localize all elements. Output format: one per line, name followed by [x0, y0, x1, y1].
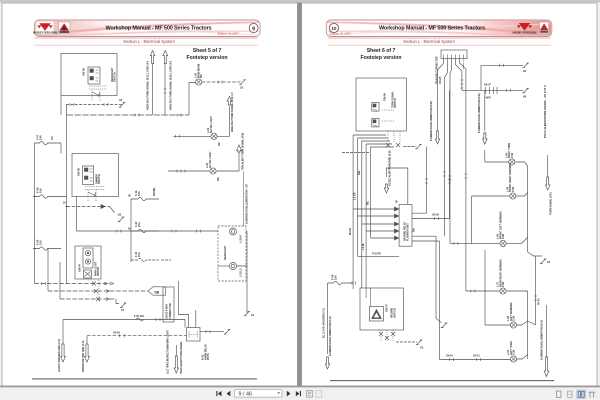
SW-08 labels [77, 168, 102, 184]
LEFT SCHEMATIC [33, 48, 255, 374]
svg-text:1.5 GR: 1.5 GR [355, 192, 357, 200]
RIGHT SCHEMATIC [323, 48, 553, 377]
contact cluster below SW-06 [388, 131, 400, 142]
wire V12 into arrows [63, 320, 87, 345]
relay tap 5 [370, 237, 399, 239]
contact arrow on H3 [101, 205, 105, 209]
svg-text:Workshop Manual - MF 500 Serie: Workshop Manual - MF 500 Series Tractors [105, 26, 211, 32]
top strip [0, 0, 600, 3]
svg-text:21W: 21W [511, 152, 514, 158]
svg-text:LH TRL LIGHT: LH TRL LIGHT [209, 151, 212, 168]
single page view icon [557, 391, 561, 397]
sheet title right [360, 48, 401, 61]
wire V10 [164, 64, 166, 116]
svg-text:SW-06: SW-06 [382, 93, 386, 101]
wire from L-04 up arrow U3 [217, 106, 229, 136]
svg-text:L-02 HI: L-02 HI [241, 235, 243, 243]
continuous view icon [568, 391, 572, 397]
down arrow D2 [85, 344, 90, 362]
wire W1 lower [63, 319, 185, 321]
relay contact row R2 [48, 290, 152, 292]
svg-text:TURN SIGNAL (6-F): TURN SIGNAL (6-F) [550, 192, 553, 215]
wire from L-05 to Z5 [202, 81, 241, 83]
bottom right arrow AR5 [546, 305, 548, 357]
left page sheet [2, 3, 298, 386]
SW-09 contact linkage [89, 86, 107, 89]
svg-text:SWITCH: SWITCH [98, 266, 100, 276]
wire from fuse down arrow AR6 [327, 283, 329, 354]
svg-text:MASSEY FERGUSON: MASSEY FERGUSON [33, 31, 57, 34]
svg-text:L-01 LO: L-01 LO [241, 268, 243, 277]
signal labels U1 U2 [147, 60, 173, 110]
next page button [287, 391, 291, 397]
relay contact row R3 [60, 298, 116, 300]
wire node H1 [66, 104, 122, 106]
svg-text:21W: 21W [512, 186, 515, 192]
banner swoosh decoration [36, 21, 136, 36]
harness bundle v2 [358, 138, 389, 256]
wire V6 [47, 249, 49, 292]
svg-text:SW-08: SW-08 [77, 168, 81, 176]
page number combo [235, 390, 283, 398]
down arrow D1 [61, 344, 66, 362]
svg-text:P-SUTR: P-SUTR [372, 254, 381, 256]
lamp L-05 headlight tell-tale [196, 79, 202, 85]
svg-text:SWITCH: SWITCH [114, 72, 117, 82]
svg-text:ILUMINACAO/ILLUMINATION (6-G): ILUMINACAO/ILLUMINATION (6-G) [540, 320, 543, 360]
lamp L-04 RH trailer light [211, 133, 217, 139]
svg-text:SW-07: SW-07 [385, 304, 389, 312]
wire top right W1r [481, 65, 523, 90]
trailer connector CN-05 [441, 50, 467, 59]
bundle labels [350, 170, 369, 235]
page separator band [297, 0, 302, 387]
section rule lower right [328, 44, 551, 47]
trailer pin wire 4 [456, 59, 462, 91]
wire to ZR7 [396, 341, 417, 343]
fuse F-11 [131, 258, 171, 261]
lamp L-01 low beam [230, 263, 237, 270]
harness bundle v3 [362, 141, 390, 288]
svg-text:FLASHER UNIT: FLASHER UNIT [407, 223, 410, 241]
contact linkage dashes [98, 280, 100, 301]
svg-text:10A: 10A [137, 252, 141, 257]
svg-text:25/7A: 25/7A [207, 353, 210, 360]
svg-text:SPARE: SPARE [153, 187, 156, 196]
wire H3 [67, 206, 110, 208]
two page view icon (active) [577, 390, 586, 398]
trailer pin wire 5 [460, 59, 466, 292]
off-sheet symbol ZR3 [415, 144, 422, 149]
footer rule right page [330, 380, 554, 381]
junction dot [66, 206, 68, 208]
footer rule left page [32, 378, 257, 379]
wire V4 [76, 197, 78, 232]
relay contact row R1 [35, 283, 111, 285]
wire V9 [152, 64, 154, 116]
wire from relay to Z6 [200, 331, 224, 333]
wire W3r mid [358, 255, 400, 257]
svg-text:Section L : Electrical System: Section L : Electrical System [123, 39, 175, 44]
section rule lower left [35, 44, 258, 47]
off-sheet ground ZR4 [441, 323, 448, 328]
SW-08 contact block [83, 166, 94, 185]
svg-text:9: 9 [252, 26, 255, 32]
wire to L-08 [472, 193, 528, 244]
trailer pin wire 1 [438, 59, 444, 135]
AGCO logo box right [540, 22, 549, 34]
first page button [218, 391, 222, 396]
headlight assembly box [218, 226, 246, 281]
page number badge 9 [249, 23, 258, 32]
svg-text:SW-09: SW-09 [82, 68, 86, 76]
wire H5 to L-04 [173, 135, 211, 137]
header banner left page [35, 20, 261, 37]
svg-text:Footstep version: Footstep version [360, 55, 401, 61]
AGCO band [59, 31, 69, 33]
svg-text:SW-04: SW-04 [78, 264, 82, 272]
down arrow AR3 with bracket [387, 168, 408, 205]
wire corner into relay [179, 281, 196, 328]
trailer pin wire 6 [463, 59, 465, 62]
svg-text:F-05 10A: F-05 10A [134, 315, 144, 318]
svg-text:CN-07: CN-07 [484, 85, 491, 87]
relay K-02 horn relay [187, 328, 201, 342]
wire V3 [60, 143, 62, 154]
svg-text:Edition 01-2007: Edition 01-2007 [218, 32, 239, 36]
svg-text:10: 10 [331, 26, 337, 31]
svg-text:Footstep version: Footstep version [186, 55, 227, 61]
left feed bus [34, 143, 36, 284]
hazard warning triangle [370, 307, 384, 322]
harness bundle v4 [366, 144, 392, 288]
svg-text:56L: 56L [367, 200, 369, 205]
wire L-shape to lamp L-05 [189, 83, 196, 116]
Massey Ferguson emblem right [517, 23, 532, 31]
svg-text:21W: 21W [502, 233, 505, 239]
SW-06 labels [382, 91, 397, 108]
svg-text:56R: 56R [359, 170, 361, 175]
lamp L-08 front right warning [510, 193, 516, 199]
wire stub V2 [66, 105, 68, 116]
svg-text:BL 12 V B+ HAZARD (7-C): BL 12 V B+ HAZARD (7-C) [323, 308, 326, 338]
svg-text:CN-09: CN-09 [432, 215, 439, 217]
fuse bus right [130, 199, 132, 262]
svg-text:HEADLIGHT: HEADLIGHT [224, 245, 227, 260]
fuse F-10 [131, 229, 159, 232]
svg-text:CN-10: CN-10 [473, 356, 480, 358]
switch SW-04 box [75, 246, 101, 279]
svg-text:ILUMINACAO/ILLUMINATION (6-E): ILUMINACAO/ILLUMINATION (6-E) [478, 93, 481, 133]
svg-text:Sheet 6 of 7: Sheet 6 of 7 [367, 48, 396, 54]
AGCO pyramid glyph [59, 23, 69, 30]
AGCO pyramid glyph right [540, 23, 548, 30]
SW-06 cluster left stub [342, 152, 370, 154]
bottom page edge line [0, 386, 600, 388]
header banner right page [326, 20, 552, 37]
svg-text:10A: 10A [137, 222, 141, 227]
svg-text:9 / 46: 9 / 46 [239, 391, 253, 397]
headlight labels [224, 235, 243, 277]
svg-text:ILUMINACAO/ILLUMINATION (6-B): ILUMINACAO/ILLUMINATION (6-B) [430, 101, 433, 141]
svg-text:1.5 BL: 1.5 BL [363, 242, 365, 250]
off-sheet symbol Z2 [118, 217, 125, 222]
svg-text:LIGHTS SW/FEED GND (2-C): LIGHTS SW/FEED GND (2-C) [58, 339, 61, 372]
wire H4 [77, 230, 219, 232]
relay tap 3 [362, 223, 399, 225]
svg-text:HIGH AUX/TURN SIGNAL (8-A) 1.0: HIGH AUX/TURN SIGNAL (8-A) 1.0 [231, 92, 234, 132]
last page button [296, 391, 300, 396]
relay output wire 3 [412, 236, 442, 323]
wire W2 dashed [87, 335, 187, 337]
toolbar background [0, 387, 600, 400]
lamp L-09 front left warning [500, 240, 506, 246]
arrow labels D1 D2 [58, 339, 85, 372]
lamp L-03 LH trailer light [210, 168, 216, 174]
SW-04 labels [78, 261, 101, 276]
relay tap 2 [358, 215, 400, 217]
svg-text:21W: 21W [502, 281, 505, 287]
down arrow AR2 [483, 90, 487, 144]
off-sheet symbol Z3 [120, 303, 127, 308]
up arrow U3 [227, 97, 231, 106]
wire to L-03 [440, 355, 528, 360]
svg-text:HIGH AUX/TURN SIGNAL (8-C) 1.0: HIGH AUX/TURN SIGNAL (8-C) 1.0 BR 14-2 [147, 60, 150, 110]
MF triple triangle emblem [37, 23, 52, 31]
svg-text:15A: 15A [137, 191, 141, 196]
down arrow D3 [174, 356, 178, 373]
SW-06 linkage [382, 110, 395, 121]
wire from L-03 up arrow U4 [216, 152, 239, 171]
lamp L-03 left turn [510, 356, 516, 362]
svg-text:DB: DB [155, 290, 160, 294]
previous view icon [307, 391, 313, 398]
contact cluster below SW-07 [381, 330, 393, 341]
svg-text:PARK/POSITION GND (2-C): PARK/POSITION GND (2-C) [82, 340, 85, 372]
fuse F-06 [328, 281, 354, 284]
switch SW-09 box [61, 54, 117, 96]
previous page button [227, 391, 231, 397]
svg-text:TRN ALERT/TURN SIGNAL (8-B): TRN ALERT/TURN SIGNAL (8-B) [241, 133, 244, 170]
wire V7 [59, 262, 61, 299]
svg-text:ILUMINACAO/ILLUMINATION (7-E): ILUMINACAO/ILLUMINATION (7-E) [329, 316, 332, 356]
svg-text:Sheet 5 of 7: Sheet 5 of 7 [193, 48, 222, 54]
svg-text:SWITCH: SWITCH [393, 308, 396, 318]
lamp L-08b left warning [510, 322, 516, 328]
svg-text:LUZES ALERTA/HAZARD (6-D): LUZES ALERTA/HAZARD (6-D) [389, 150, 392, 186]
SW-06 contact block A [372, 103, 379, 112]
svg-text:SWITCH: SWITCH [98, 174, 101, 184]
SW-04 contact block [83, 248, 93, 268]
up arrow U1 [150, 51, 155, 64]
SW-09 contact block [88, 67, 100, 84]
SW-08 contact linkage [85, 187, 105, 190]
SW-09 labels [82, 67, 117, 82]
svg-text:POCA ALERTA/TURN SIGNAL - 5/7: POCA ALERTA/TURN SIGNAL - 5/7 0.75 G [543, 85, 547, 138]
svg-text:BUS B: BUS B [350, 227, 352, 235]
svg-text:LUZ TRAS INSPECTION/WORK LIGHT: LUZ TRAS INSPECTION/WORK LIGHT [166, 329, 169, 374]
up arrow U2 [163, 51, 168, 64]
wire to L-08b [485, 250, 528, 325]
switch SW-06 box [356, 78, 406, 131]
Massey Ferguson logo box [36, 21, 54, 34]
svg-text:15A: 15A [39, 135, 43, 140]
right page sheet [302, 3, 598, 386]
trailer pin wire 3 [450, 59, 452, 244]
svg-text:TRAS ALERT/TURN SIGNAL: TRAS ALERT/TURN SIGNAL [180, 341, 183, 374]
page number badge 10 [329, 23, 338, 32]
svg-text:CONNECTOR: CONNECTOR [169, 303, 172, 319]
svg-text:SWITCH: SWITCH [394, 98, 397, 108]
wire to L-07 [466, 291, 528, 359]
harness bundle v1 [353, 135, 386, 289]
svg-text:Section L : Electrical System: Section L : Electrical System [403, 39, 455, 44]
svg-text:21W: 21W [513, 315, 516, 321]
svg-text:15A: 15A [39, 188, 43, 193]
wire stub V1 [60, 96, 62, 116]
svg-text:CN-04: CN-04 [446, 355, 453, 358]
svg-text:15A: 15A [39, 240, 43, 245]
fuse F-08 [35, 195, 67, 198]
flasher relay K-03 [399, 205, 412, 247]
section rule upper right [328, 37, 551, 40]
right margin wire and arrow AR4 [547, 155, 549, 177]
svg-text:4-WAY: 4-WAY [484, 97, 492, 100]
connector block CN-07 [486, 87, 498, 94]
wire V8 to ground [237, 232, 248, 314]
ground branch ZR5 [528, 252, 542, 256]
wire into L-01 [218, 265, 230, 267]
off-sheet symbol Z1 [119, 103, 126, 108]
SW-06 contact block B [372, 118, 379, 127]
wire bus H2 [67, 114, 190, 116]
svg-text:TR-04: TR-04 [538, 298, 541, 305]
two page continuous icon [588, 392, 595, 397]
up arrow U4 [237, 145, 242, 152]
banner swoosh decoration right [430, 21, 551, 36]
wire corner to Z3 [116, 299, 119, 304]
svg-text:RH TRL LIGHT: RH TRL LIGHT [210, 116, 213, 133]
wire to L-09 [450, 237, 528, 243]
off-sheet symbol Z5 [239, 80, 246, 85]
relay tap 1 [353, 208, 399, 210]
svg-text:MASSEY FERGUSON: MASSEY FERGUSON [513, 31, 537, 34]
SW-07 inner feed stub [366, 288, 370, 306]
AGCO band right [540, 30, 548, 32]
relay output wire 1 [412, 147, 426, 214]
switch SW-07 hazard box [360, 288, 404, 330]
svg-text:21W: 21W [513, 349, 516, 355]
switch SW-08 box [72, 154, 119, 197]
harness bundle v5 [370, 147, 394, 238]
relay output wire 2 [412, 90, 449, 218]
wire W2r [462, 89, 523, 91]
svg-text:ILUMINACAO/ILLUMINATION - 5/7: ILUMINACAO/ILLUMINATION - 5/7 [246, 183, 249, 224]
main bus V5 [66, 115, 68, 284]
sheet title left [186, 48, 227, 61]
svg-text:Workshop Manual - MF 500 Serie: Workshop Manual - MF 500 Series Tractors [379, 26, 485, 32]
svg-text:HIGH AUX/TURN SIGNAL (8-D) 1.0: HIGH AUX/TURN SIGNAL (8-D) 1.0 BR 14-2 [169, 60, 172, 110]
down arrow AR1 [435, 131, 439, 144]
lamp L-04 right turn [509, 159, 515, 165]
svg-text:CN-06: CN-06 [113, 333, 120, 335]
connector CN-02 box [163, 287, 174, 322]
relay output wire 4 [412, 241, 440, 360]
next view icon [316, 391, 322, 398]
off-sheet symbol Z4 [244, 311, 251, 316]
section rule upper left [35, 37, 258, 40]
right stub with marks [528, 256, 536, 325]
wire to L-04 [485, 150, 528, 166]
harness arrow right [148, 287, 166, 295]
wire H6 to L-03 [168, 170, 210, 172]
off-sheet symbol ZR2 [522, 88, 529, 93]
trailer pin wire 2 [445, 59, 448, 237]
relay tap 4 [366, 230, 399, 232]
fuse F-09 [35, 247, 62, 250]
svg-text:15A: 15A [334, 275, 338, 280]
svg-text:10r: 10r [51, 136, 54, 140]
SW-07 labels [385, 304, 397, 318]
fuse F-12 [131, 197, 159, 200]
turn signal label right margin [543, 85, 547, 138]
svg-text:Edition 01-2007: Edition 01-2007 [330, 32, 351, 36]
fuse F-05 inline [136, 318, 144, 321]
wire V11 [243, 171, 245, 226]
svg-text:CN-05: CN-05 [439, 76, 442, 84]
main right bus [527, 166, 529, 252]
lamp L-07 rear left [500, 288, 506, 294]
lamp L-02 high beam [230, 228, 237, 235]
AGCO logo box [59, 22, 70, 34]
off-sheet symbol ZR1 [522, 63, 529, 68]
off-sheet symbol Z6 [224, 330, 231, 335]
fuse F-07 [35, 141, 62, 144]
